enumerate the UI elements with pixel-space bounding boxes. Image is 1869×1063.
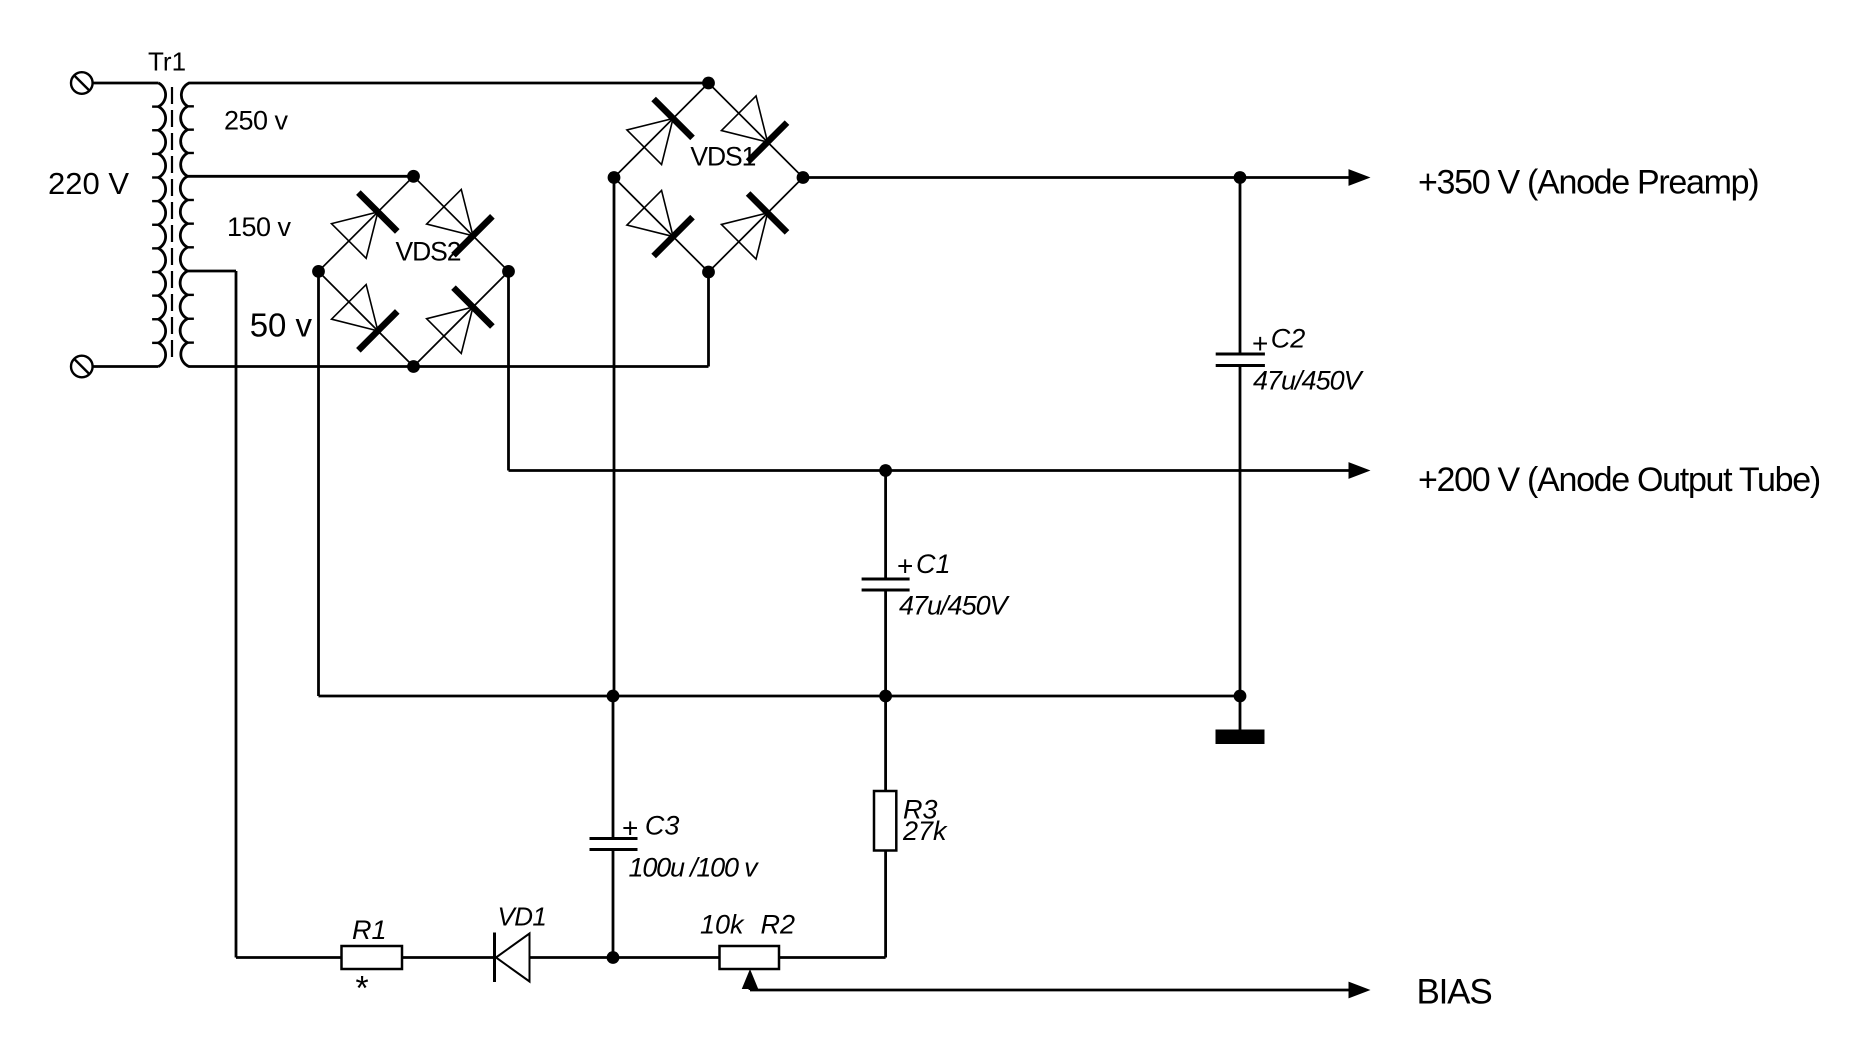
terminal input bottom [71,356,93,378]
wire ground bus [319,695,1241,698]
capacitor C3 [590,839,638,850]
wire VD1 to junction [530,956,614,959]
svg-text:10k: 10k [700,910,745,940]
label 150 v [227,212,292,242]
arrow +350V [1349,169,1371,186]
junction VDS1 top [702,77,715,90]
wire input bottom [93,365,159,368]
label C3 value 100u /100 v [629,853,760,883]
label Tr1 [148,47,186,77]
svg-text:VDS2: VDS2 [396,236,461,266]
potentiometer R2 wiper arrow [742,969,759,990]
label C2 value 47u/450V [1253,366,1365,396]
svg-text:Tr1: Tr1 [148,47,186,77]
svg-text:*: * [354,970,369,1008]
transformer Tr1 core [171,87,173,363]
wire R3 top [884,696,887,791]
junction +200V / C1 [879,464,892,477]
resistor R3 [874,791,896,851]
diode bridge VDS1 outline [614,83,803,272]
wire C2 bottom [1239,366,1242,697]
svg-text:47u/450V: 47u/450V [899,591,1011,621]
junction VDS2 top [407,170,420,183]
junction VDS1 bottom [702,266,715,279]
wire ground stub [1239,696,1242,730]
diode VDS1 bottom-right arm [721,193,787,259]
junction bus / C1 branch [879,690,892,703]
diode VD1 [495,933,530,983]
junction +350V / C2 [1234,171,1247,184]
label C2 [1271,324,1306,354]
junction VDS1 right [797,171,810,184]
svg-text:220 V: 220 V [48,166,129,201]
label C1 value 47u/450V [899,591,1011,621]
wire +350V line [803,176,1349,179]
capacitor C1 [862,579,910,590]
wire VDS2 left drop [317,271,320,696]
label VD1 [498,902,547,932]
potentiometer R2 [720,946,780,969]
junction VDS2 bottom on rail [407,360,420,373]
label BIAS [1417,973,1492,1012]
svg-text:VD1: VD1 [498,902,547,932]
wire C3 top [612,696,615,839]
ground [1216,730,1265,745]
label R2 value 10k [700,910,745,940]
label 250 v [224,105,289,135]
diode VDS2 left-bottom arm [332,285,398,351]
wire R2 to R3 [779,956,886,959]
svg-text:250 v: 250 v [224,105,289,135]
label +350 V (Anode Preamp) [1418,164,1758,202]
diode VDS2 bottom-right arm [427,288,493,354]
wire bottom rail [189,365,709,368]
wire 150v tap to VDS2 top [188,175,414,178]
svg-text:27k: 27k [902,816,948,846]
svg-text:100u /100 v: 100u /100 v [629,853,760,883]
wire R3 bottom [884,851,887,958]
junction bus / C2 branch [1234,690,1247,703]
wire 50v tap vertical [235,271,238,958]
svg-text:R1: R1 [352,915,387,945]
wire R1 to VD1 [402,956,495,959]
resistor R1 [342,946,403,969]
capacitor C2 [1216,354,1265,366]
wire input top [93,82,159,85]
svg-text:+: + [1252,328,1268,359]
label C1 [916,549,951,579]
label R3 value 27k [902,816,948,846]
svg-text:BIAS: BIAS [1417,973,1492,1012]
wire bottom left to R1 [236,956,342,959]
label C2 polarity + [1252,328,1268,359]
junction bus / C3 branch [607,690,620,703]
wire VDS1 left drop [613,178,616,697]
wire 250v tap to VDS1 top [189,82,709,85]
svg-text:+: + [897,551,913,582]
svg-text:R2: R2 [761,910,796,940]
svg-text:C1: C1 [916,549,951,579]
transformer Tr1 secondary winding 50v section [180,271,194,367]
svg-text:C3: C3 [645,811,680,841]
svg-text:C2: C2 [1271,324,1306,354]
label C3 [645,811,680,841]
arrow +200V [1349,462,1371,479]
terminal input top [71,72,93,94]
wire C1 top [884,471,887,580]
junction VDS2 left [312,265,325,278]
label +200 V (Anode Output Tube) [1418,461,1820,499]
junction VDS1 left [608,171,621,184]
svg-text:50 v: 50 v [250,307,313,344]
label VDS2 [396,236,461,266]
wire junction to R2 [613,956,720,959]
wire C1 bottom [884,590,887,696]
wire BIAS line [750,989,1349,992]
diode bridge VDS2 outline [318,176,508,366]
label VDS1 [690,142,755,172]
transformer Tr1 secondary winding 250v section [181,83,194,176]
transformer Tr1 secondary winding 150v section [180,176,194,271]
diode VDS2 left-top arm [332,193,398,259]
label R3 [903,795,938,825]
diode VDS1 top-right arm [721,96,787,162]
transformer Tr1 primary winding [152,83,166,367]
svg-text:47u/450V: 47u/450V [1253,366,1365,396]
label R1 value * [354,970,369,1008]
label C3 polarity + [622,813,638,844]
label R1 [352,915,387,945]
wire VDS2 right drop [507,271,510,470]
svg-text:+350 V (Anode Preamp): +350 V (Anode Preamp) [1418,164,1758,202]
label 50 v [250,307,313,344]
diode VDS1 left-bottom arm [627,190,693,256]
wire 50v tap horizontal [188,270,237,273]
junction VDS2 right [502,265,515,278]
svg-text:150 v: 150 v [227,212,292,242]
svg-text:VDS1: VDS1 [690,142,755,172]
diode VDS1 left-top arm [627,99,693,165]
wire VDS1 bottom drop [707,272,710,367]
label C1 polarity + [897,551,913,582]
svg-text:+: + [622,813,638,844]
wire +200V line [509,469,1349,472]
svg-text:+200 V (Anode Output Tube): +200 V (Anode Output Tube) [1418,461,1820,499]
wire C3 bottom [612,850,615,958]
arrow BIAS [1349,982,1371,999]
label 220 V [48,166,129,201]
junction bottom / C3 [607,951,620,964]
wire C2 top [1239,178,1242,355]
label R2 [761,910,796,940]
diode VDS2 top-right arm [427,189,493,255]
